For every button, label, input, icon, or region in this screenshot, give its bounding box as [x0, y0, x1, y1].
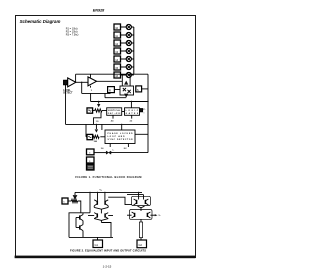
pin row 4 wire to bus [131, 50, 133, 52]
cell glyph q2 [128, 90, 131, 93]
svg-text:G2: G2 [139, 243, 143, 247]
flip-flop cell box U2A [120, 86, 134, 95]
pin row 5 pad [126, 56, 131, 61]
pin row 3 wire [121, 42, 127, 44]
svg-text:VERTICAL: VERTICAL [108, 109, 121, 112]
rail drop to Q3 collector [97, 192, 99, 200]
svg-text:Cₓ: Cₓ [112, 150, 114, 152]
trim glyph [88, 110, 91, 111]
resistor R11 body [139, 222, 142, 238]
transistor Q3 [96, 201, 98, 205]
wire rail stub to U2 [90, 74, 92, 77]
U3 stub [112, 115, 114, 118]
feedback wire to cell arrow [105, 97, 126, 99]
Q8 emitter to rail [82, 231, 84, 238]
transistor Q7 [79, 215, 81, 219]
pin row 6 wire [121, 66, 127, 68]
input pad [64, 80, 68, 85]
pin row 7 wire to bus [131, 74, 133, 76]
svg-text:≡: ≡ [143, 112, 144, 115]
wire box A to diode [94, 152, 106, 154]
cell glyph q1 [123, 88, 126, 91]
flip-flop left box R4 [108, 87, 115, 93]
pin row 2 wire [121, 34, 127, 36]
right frame 1 [132, 196, 151, 205]
bottom rail [69, 236, 113, 238]
resistor R10 zigzag [72, 200, 78, 203]
flip-flop right box R5 [136, 86, 142, 92]
oscillator trim box R6 [87, 108, 93, 113]
pin row 6 pad [126, 64, 131, 69]
Q7 Q8 link [75, 218, 77, 228]
comparator U2 [88, 77, 97, 86]
wire U1 out [76, 81, 88, 83]
transistor Q8 [79, 225, 81, 229]
pin row 5 box [114, 56, 121, 62]
figure2 top rail [75, 191, 142, 193]
stub to box G1 [97, 237, 99, 240]
svg-text:PHASE LOCKED: PHASE LOCKED [108, 132, 134, 135]
svg-text:OSC ÷512: OSC ÷512 [108, 112, 121, 115]
svg-text:R: R [109, 89, 111, 93]
pin row 7 box [114, 72, 121, 78]
Q3 Q4 base join [94, 207, 108, 209]
svg-text:SYNC DETECTOR: SYNC DETECTOR [108, 139, 134, 141]
bottom thick rule [15, 256, 196, 259]
svg-text:3.6: 3.6 [101, 148, 104, 150]
wire R6 to R7 [93, 110, 95, 112]
svg-text:G1: G1 [95, 243, 99, 247]
varactor arrow V1 [98, 102, 100, 104]
pin row 1 wire to bus [131, 26, 133, 28]
output pin stub [139, 110, 141, 112]
U4 stub [131, 115, 133, 118]
pin row 7 pad [126, 72, 131, 77]
node dot B [98, 101, 99, 102]
pin row 3 pad [126, 40, 131, 45]
transistor Q5 [96, 213, 98, 217]
pin row 3 box [114, 40, 121, 46]
comparator U1 [68, 78, 76, 87]
rail drop right A [138, 192, 140, 199]
wire P1 to R10 [68, 200, 72, 202]
wire R10 to node [78, 201, 81, 213]
pin row 1 wire [121, 26, 127, 28]
osc drop wire [94, 112, 102, 124]
pin row 2 pad [126, 32, 131, 37]
Q5 Q6 bottom join [94, 219, 108, 221]
output arrow [155, 214, 158, 216]
base drop mid [140, 208, 142, 211]
feedback wire lower [82, 92, 111, 94]
feedback joint [104, 93, 106, 97]
wire U5 out [135, 133, 148, 135]
node mid rail [91, 101, 148, 103]
svg-text:FIGURE 2. EQUIVALENT INPUT AND: FIGURE 2. EQUIVALENT INPUT AND OUTPUT CI… [70, 248, 146, 252]
diode D2 arrow [74, 192, 76, 195]
pin row 5 wire [121, 58, 127, 60]
pin row 2 wire to bus [131, 34, 133, 36]
svg-text:1-2-15: 1-2-15 [103, 265, 112, 269]
input box P1 [62, 198, 68, 204]
feedback vertical from node A [81, 82, 83, 93]
mid rail riser [90, 93, 92, 101]
cell riser right [129, 74, 131, 86]
U5 stub left [109, 144, 111, 148]
svg-text:Pₓ: Pₓ [143, 109, 145, 111]
pin row 4 box [114, 48, 121, 54]
node dot G [89, 192, 90, 193]
svg-text:DETECT: DETECT [63, 93, 73, 95]
pin row 1 box [114, 24, 121, 30]
option box A [87, 149, 95, 155]
node dot H [97, 192, 98, 193]
pin row 4 pad [126, 48, 131, 53]
U3-U4 link [122, 111, 125, 113]
output pin box [140, 109, 143, 112]
cluster bottom drop [140, 219, 142, 222]
base drop [100, 209, 102, 213]
wire left into frame2 [127, 214, 132, 216]
pin row 6 box [114, 64, 121, 70]
wire R9 to U5 [100, 136, 105, 138]
svg-text:Schematic Diagram: Schematic Diagram [20, 19, 61, 24]
svg-text:560: 560 [94, 141, 97, 143]
wire node down to mirror frame [89, 192, 91, 212]
diode D1 [106, 151, 111, 154]
step wire to bottom rail [101, 223, 111, 238]
node dot F [121, 124, 122, 125]
svg-text:LOGIC: LOGIC [126, 110, 139, 112]
phase detector box U5 [105, 130, 135, 144]
logic gate box U4 [125, 108, 140, 116]
Q5 wire left [88, 215, 94, 217]
pin box G1 [93, 240, 103, 248]
pin row 7 wire [121, 74, 127, 76]
right bus vertical [147, 74, 149, 152]
node dot J [138, 192, 139, 193]
U5 stub right [127, 144, 129, 148]
transistor Q12 [146, 213, 148, 217]
transistor Q4 [104, 201, 106, 205]
wire R5 to bus [142, 88, 148, 90]
wire into trim box R8 [85, 124, 87, 136]
rail2 corner drop [143, 195, 145, 200]
output wire [150, 214, 155, 216]
node dot D [147, 101, 148, 102]
node dot I [104, 192, 105, 193]
wire drop to PLL top left [101, 124, 103, 130]
rail drop to Q4 collector [104, 192, 106, 200]
pin row 2 box [114, 32, 121, 38]
option box B [87, 157, 95, 163]
transistor Q10 [144, 200, 146, 204]
svg-text:R3 = 7.5kΩ: R3 = 7.5kΩ [66, 33, 79, 36]
cell riser left [121, 74, 123, 86]
node low rail [66, 123, 149, 125]
pin box G2 [137, 240, 147, 248]
wire R11 to box [140, 238, 142, 240]
resistor R9 zigzag [93, 135, 99, 138]
node A [81, 82, 82, 83]
pin bus vertical [133, 27, 135, 74]
varactor arrow V2 [95, 124, 97, 129]
flip-flop wire [114, 89, 120, 91]
Q9 Q10 base join [138, 206, 145, 208]
node top rail [76, 73, 148, 75]
pin row 5 wire to bus [131, 58, 133, 60]
node dot C [131, 101, 132, 102]
Q6 wire right [108, 215, 113, 217]
node dot E [96, 124, 97, 125]
Q7 collector to frame top [82, 213, 84, 215]
bottom drop to step [100, 220, 102, 222]
svg-text:V₀: V₀ [159, 215, 161, 217]
svg-text:1.5: 1.5 [96, 121, 99, 123]
pin row 1 pad [126, 24, 131, 29]
transistor Q6 [104, 213, 106, 217]
svg-text:2.2: 2.2 [130, 120, 133, 122]
wire left feedback tall [65, 85, 67, 124]
svg-text:LOOP AND: LOOP AND [108, 135, 126, 138]
cell bottom arrow [124, 94, 128, 98]
wire diode to bus [111, 152, 148, 154]
figure2 top rail 2 [127, 194, 144, 196]
page border frame [16, 16, 196, 258]
wire U2 out [97, 80, 123, 82]
step wire left to right cluster [108, 197, 131, 204]
option box C [87, 164, 95, 170]
cell top arrow [124, 81, 128, 85]
pin row 6 wire to bus [131, 66, 133, 68]
right frame 2 [130, 210, 153, 220]
transistor Q9 [136, 200, 138, 204]
wire drop to PLL top right [121, 124, 123, 130]
vertical oscillator box U3 [107, 108, 122, 116]
trim glyph 2 [88, 136, 91, 137]
U4 riser [130, 102, 132, 108]
svg-text:FIGURE 1. FUNCTIONAL BLOCK DIA: FIGURE 1. FUNCTIONAL BLOCK DIAGRAM [75, 175, 141, 179]
svg-text:4.5: 4.5 [111, 119, 114, 122]
wire U1 out up to rail [75, 74, 77, 82]
pin row 3 wire to bus [131, 42, 133, 44]
resistor R7 zigzag [95, 109, 102, 112]
pin row 4 wire [121, 50, 127, 52]
svg-text:S: S [137, 88, 139, 92]
transistor Q11 [134, 213, 136, 217]
svg-text:8.2: 8.2 [124, 148, 127, 150]
mirror frame [69, 213, 90, 238]
svg-text:EN928: EN928 [93, 8, 105, 12]
trim box R8 [87, 134, 93, 139]
wire R7 to U3 [102, 110, 107, 112]
